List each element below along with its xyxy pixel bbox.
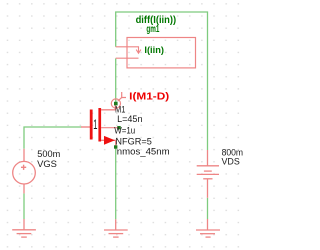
wire drain net: gm1 box top pin up and across to VDS [116,12,208,150]
svg-text:NFGR=5: NFGR=5 [115,136,151,146]
channel bar [98,108,101,142]
svg-text:W=1u: W=1u [114,126,135,136]
ground symbol gnd3 (below M1 source) [104,219,128,237]
node dot: probe / drain junction [114,102,118,106]
voltage source V2 VDS battery [197,150,219,198]
ground symbol gnd2 (below VDS) [196,219,220,237]
ground symbol gnd1 (below VGS) [12,219,36,237]
svg-text:gm1: gm1 [146,24,159,35]
svg-text:I(M1-D): I(M1-D) [129,91,169,102]
node dot: bulk pin [117,126,120,129]
svg-text:I(iin): I(iin) [144,45,164,56]
svg-text:500m: 500m [37,149,60,159]
bulk lead [101,127,119,129]
voltage source V1 VGS circle [13,149,36,194]
gm1 input pin stubs and sense arrow [116,47,141,58]
node dot: source junction [114,145,117,148]
svg-text:L=45n: L=45n [117,114,142,124]
wire M1 source down to ground [115,144,117,219]
svg-text:M1: M1 [115,104,125,114]
svg-text:VDS: VDS [222,156,240,166]
gate bar [90,110,93,140]
svg-text:VGS: VGS [37,159,57,169]
gate lead [81,126,90,128]
wire drain net: probe up to gm1 box bottom pin [115,58,117,103]
current probe on M1 drain [111,92,126,108]
source arrow [104,136,115,145]
wire VGS minus to ground [23,193,25,219]
source lead [101,140,116,146]
drain lead [101,105,115,110]
svg-text:1: 1 [93,116,97,132]
CCCS gm1 box outline [127,38,196,68]
wire gate net horizontal from VGS to M1 gate [24,127,82,149]
plus sign of VGS [21,165,26,170]
wire VDS minus to ground [207,198,209,219]
svg-text:nmos_45nm: nmos_45nm [117,146,170,156]
